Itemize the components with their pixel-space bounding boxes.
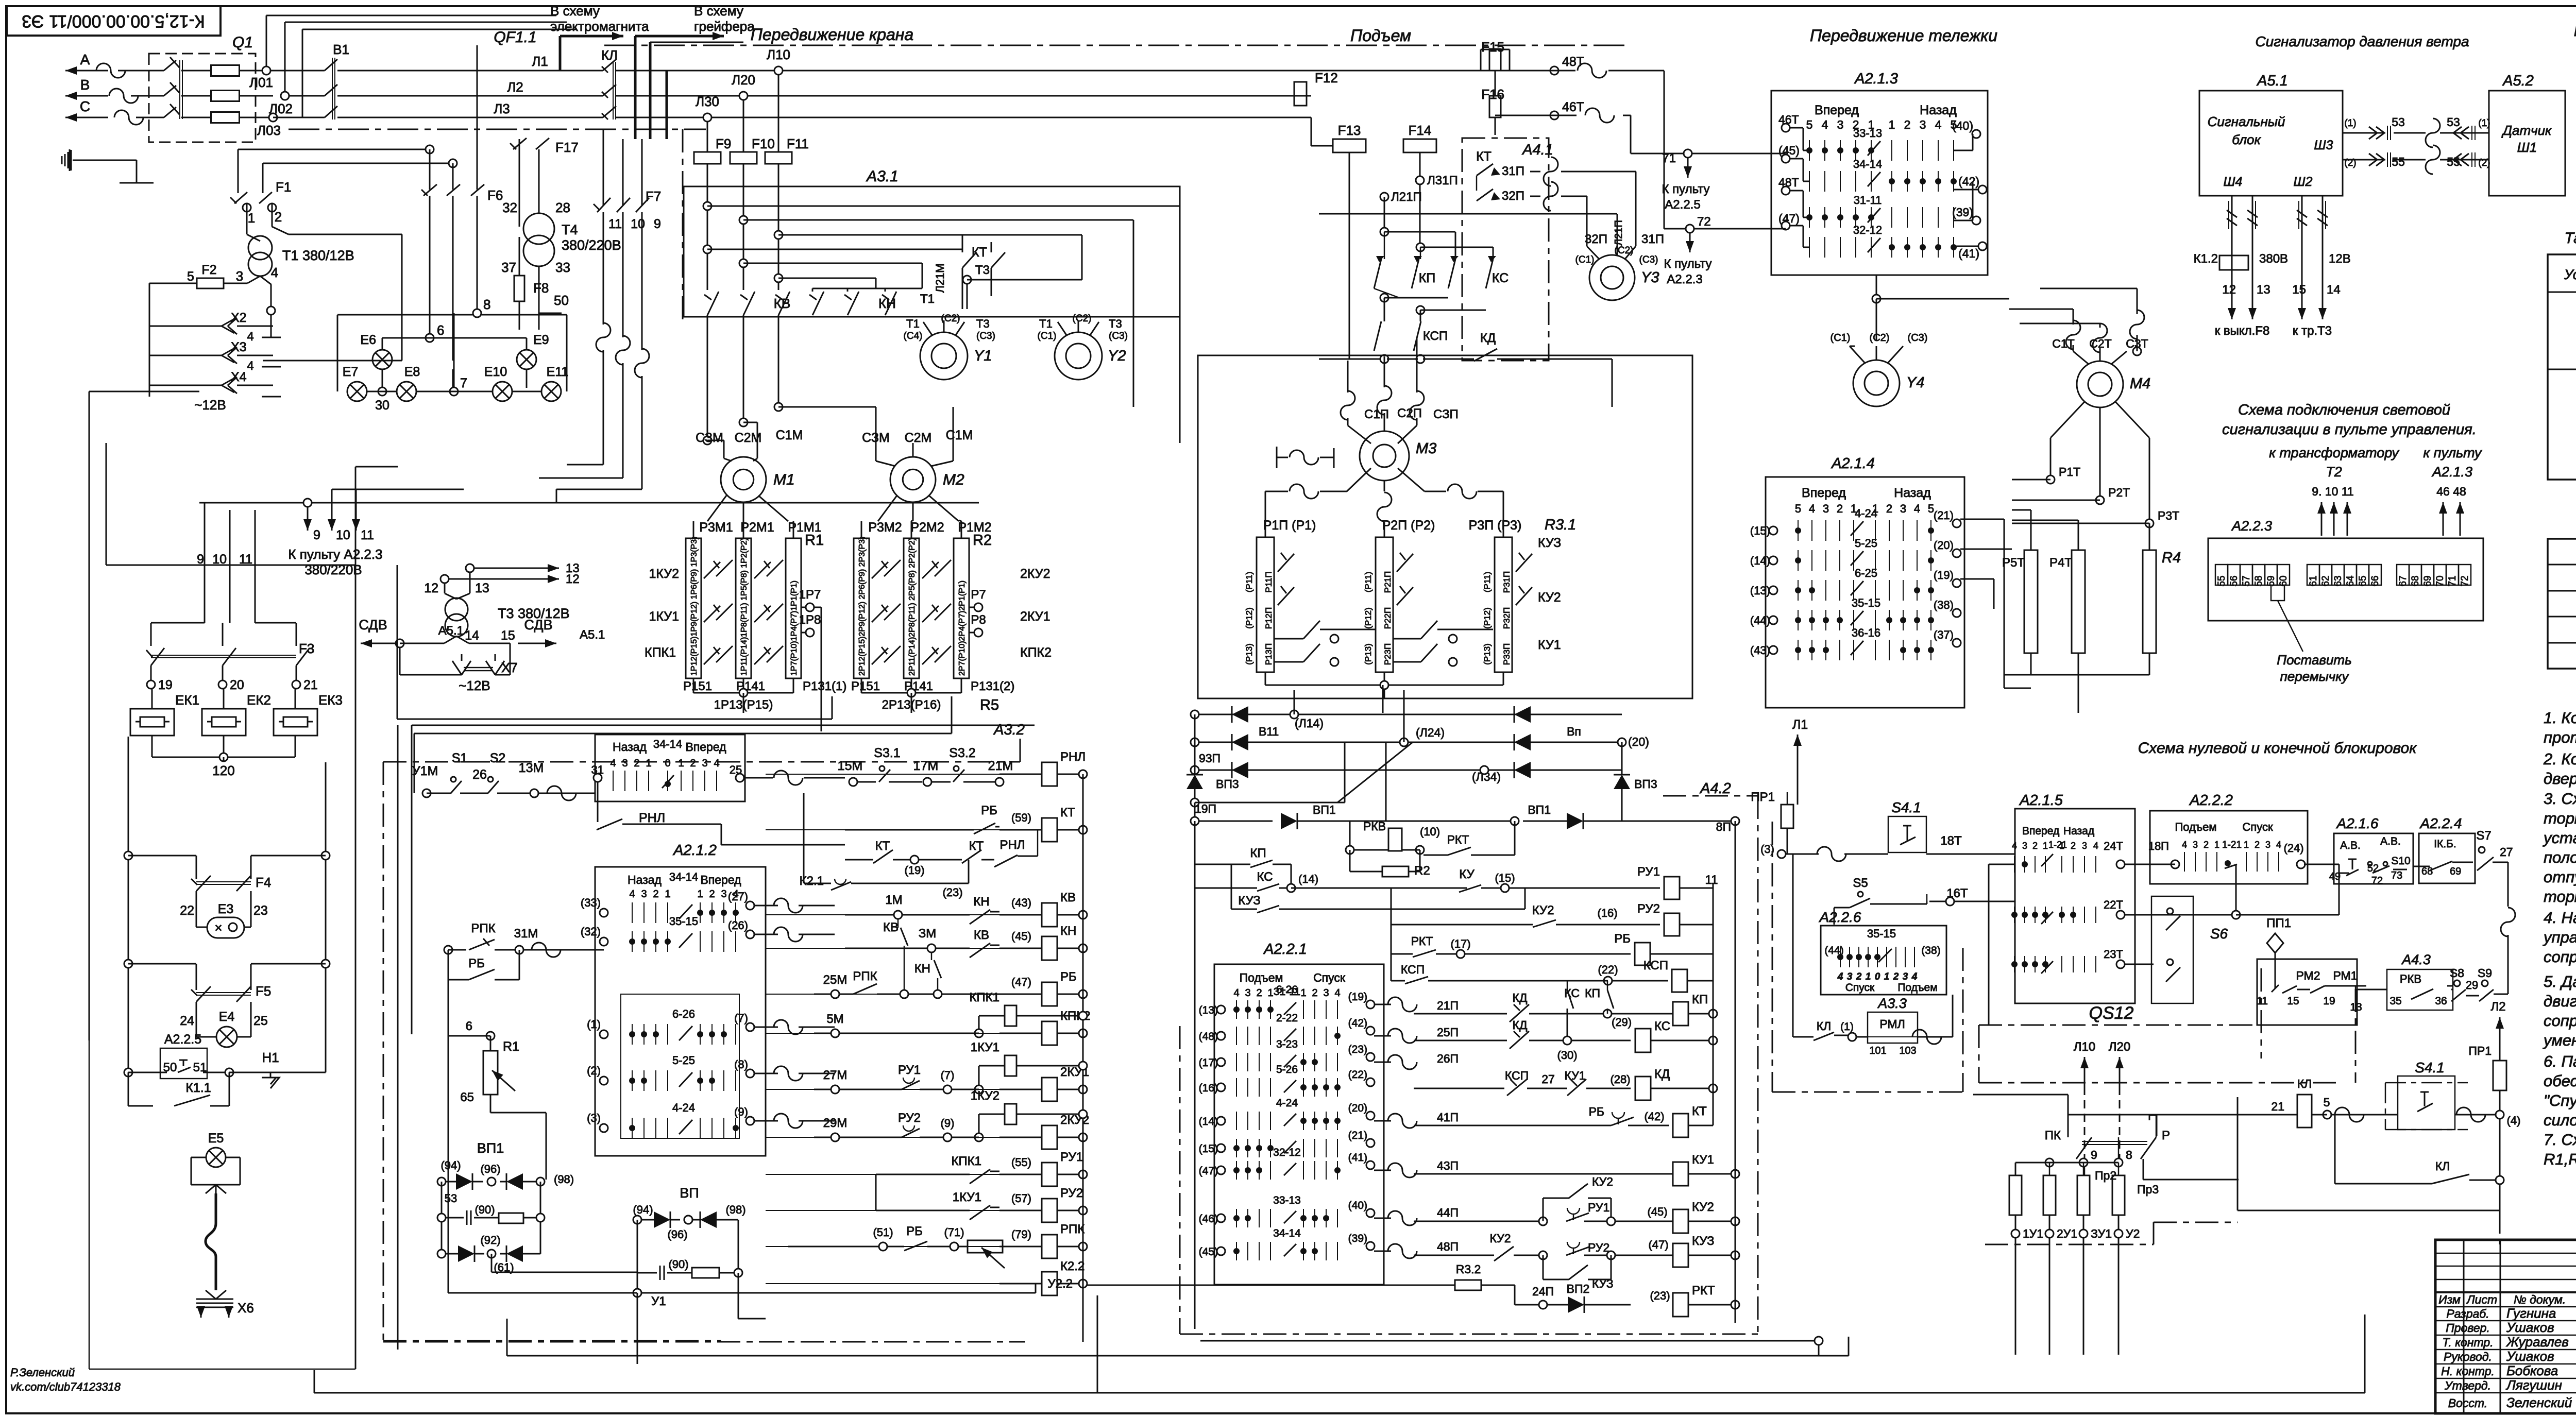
svg-text:КТ: КТ (875, 839, 890, 853)
svg-text:61: 61 (2308, 575, 2319, 586)
svg-text:1КУ1: 1КУ1 (953, 1190, 981, 1204)
svg-text:Y4: Y4 (1906, 374, 1924, 391)
svg-text:КПК1: КПК1 (951, 1154, 981, 1168)
svg-text:13: 13 (475, 581, 489, 595)
svg-text:4: 4 (1809, 502, 1815, 515)
svg-text:34-14: 34-14 (653, 738, 682, 750)
svg-text:F5: F5 (256, 983, 271, 999)
svg-text:(28): (28) (1610, 1073, 1630, 1086)
svg-text:46 48: 46 48 (2436, 485, 2466, 498)
svg-text:(45): (45) (1011, 930, 1031, 943)
svg-text:S2: S2 (490, 751, 506, 765)
svg-text:Назад: Назад (613, 740, 647, 754)
svg-text:ВП3: ВП3 (1634, 777, 1657, 791)
svg-text:КВ: КВ (883, 920, 899, 934)
svg-text:14: 14 (465, 628, 479, 643)
svg-text:R3.2: R3.2 (1456, 1262, 1481, 1276)
svg-text:сопротивлении R1 (ступень 63-6: сопротивлении R1 (ступень 63-65-0) произ… (2544, 1012, 2576, 1030)
svg-text:2: 2 (2071, 841, 2076, 851)
svg-text:(47): (47) (1199, 1165, 1218, 1177)
svg-text:Т1: Т1 (1039, 317, 1053, 330)
svg-text:КД: КД (1513, 1018, 1528, 1032)
svg-text:(30): (30) (1557, 1049, 1577, 1062)
svg-text:(92): (92) (480, 1234, 500, 1247)
svg-text:Ш4: Ш4 (2224, 175, 2243, 189)
svg-text:55: 55 (2392, 155, 2405, 168)
svg-text:34-14: 34-14 (1853, 158, 1882, 170)
svg-text:М3: М3 (1416, 440, 1436, 457)
svg-text:33: 33 (555, 260, 570, 275)
svg-text:8П: 8П (1716, 820, 1731, 833)
svg-text:Устройство: Устройство (2564, 267, 2576, 282)
svg-text:F14: F14 (1409, 123, 1432, 138)
svg-text:(40): (40) (1348, 1200, 1367, 1211)
svg-text:двери барьера.: двери барьера. (2544, 770, 2576, 788)
svg-text:71: 71 (1662, 151, 1676, 165)
svg-text:(С1): (С1) (1575, 254, 1595, 265)
svg-text:F9: F9 (716, 136, 731, 151)
svg-text:А5.1: А5.1 (438, 624, 464, 638)
svg-text:А2.1.3: А2.1.3 (1854, 71, 1898, 87)
svg-text:Провер.: Провер. (2446, 1321, 2490, 1335)
svg-text:25П: 25П (1437, 1026, 1459, 1039)
svg-text:А3.2: А3.2 (993, 722, 1025, 738)
svg-text:Р2М1: Р2М1 (740, 520, 774, 535)
svg-text:21П: 21П (1437, 999, 1459, 1012)
svg-text:(Р12): (Р12) (1482, 607, 1492, 629)
svg-text:vk.com/club74123318: vk.com/club74123318 (10, 1380, 121, 1393)
svg-text:F17: F17 (555, 140, 579, 155)
svg-text:68: 68 (2421, 866, 2433, 877)
svg-text:Р11П: Р11П (1264, 571, 1274, 592)
svg-text:S3.1: S3.1 (874, 746, 900, 760)
svg-text:(43): (43) (1011, 896, 1031, 909)
svg-text:А5.2: А5.2 (2502, 73, 2534, 89)
svg-text:1-21: 1-21 (2048, 840, 2067, 850)
svg-text:РКТ: РКТ (1411, 934, 1433, 948)
svg-text:F1: F1 (276, 179, 291, 195)
svg-text:11: 11 (2257, 995, 2268, 1007)
svg-text:к пульту: к пульту (2423, 445, 2482, 460)
svg-text:(39): (39) (1348, 1233, 1367, 1244)
svg-text:3: 3 (1245, 987, 1250, 999)
svg-text:69: 69 (2422, 575, 2433, 586)
svg-text:Р2М2: Р2М2 (910, 520, 944, 535)
svg-text:Е9: Е9 (533, 333, 549, 347)
svg-text:(27): (27) (728, 890, 748, 903)
svg-text:6. Панель управления механизма: 6. Панель управления механизма подъема Т… (2544, 1052, 2576, 1070)
svg-text:1КУ1: 1КУ1 (649, 609, 679, 624)
svg-text:46Т: 46Т (1562, 100, 1584, 114)
svg-text:Н. контр.: Н. контр. (2441, 1364, 2495, 1378)
svg-text:(13): (13) (1199, 1004, 1218, 1016)
svg-text:торможение противовключением и: торможение противовключением и свободный… (2544, 809, 2576, 827)
svg-text:"Спуск", режим динамического т: "Спуск", режим динамического торможения,… (2544, 1091, 2576, 1109)
svg-text:Р8: Р8 (971, 613, 986, 627)
svg-text:S5: S5 (1853, 876, 1868, 890)
svg-text:4: 4 (1837, 971, 1843, 982)
svg-text:(14): (14) (1199, 1116, 1218, 1128)
svg-text:19: 19 (2323, 995, 2335, 1007)
svg-text:(13): (13) (1750, 584, 1770, 597)
svg-text:8: 8 (483, 297, 490, 312)
svg-text:31П: 31П (1502, 164, 1524, 178)
svg-text:5: 5 (1806, 118, 1813, 131)
svg-text:А2.2.2: А2.2.2 (2189, 792, 2233, 809)
svg-text:19: 19 (158, 678, 173, 692)
svg-text:1Р11(Р14)1Р8(Р11) 1Р5(Р8) 1Р2(: 1Р11(Р14)1Р8(Р11) 1Р5(Р8) 1Р2(Р2) (740, 538, 749, 676)
svg-text:электромагнита: электромагнита (550, 19, 649, 34)
svg-text:КВ: КВ (974, 928, 989, 942)
svg-text:Изм: Изм (2438, 1293, 2461, 1306)
svg-text:3: 3 (1837, 118, 1844, 131)
svg-text:1У1: 1У1 (2023, 1227, 2043, 1240)
svg-text:24: 24 (180, 1014, 194, 1028)
svg-text:(98): (98) (554, 1173, 574, 1186)
svg-text:27: 27 (2500, 845, 2513, 859)
svg-text:2У1: 2У1 (2057, 1227, 2077, 1240)
svg-text:к выкл.F8: к выкл.F8 (2215, 324, 2270, 338)
svg-text:Схема подключения световой: Схема подключения световой (2238, 402, 2450, 418)
svg-text:15: 15 (2292, 283, 2306, 297)
svg-text:36-16: 36-16 (1852, 626, 1880, 639)
svg-text:29: 29 (2466, 979, 2478, 992)
svg-text:Л21П: Л21П (1391, 190, 1422, 204)
svg-text:(96): (96) (667, 1228, 687, 1241)
svg-text:Т3: Т3 (975, 263, 990, 277)
svg-text:31П: 31П (1641, 232, 1664, 246)
svg-text:А2.1.5: А2.1.5 (2019, 792, 2063, 809)
svg-text:А3.3: А3.3 (1877, 996, 1907, 1011)
svg-text:Х7: Х7 (501, 660, 518, 675)
svg-text:КУ: КУ (1459, 867, 1475, 881)
svg-text:Р22П: Р22П (1383, 607, 1393, 629)
svg-text:103: 103 (1899, 1045, 1916, 1056)
svg-text:К пульту А2.2.3: К пульту А2.2.3 (288, 547, 382, 562)
svg-text:(23): (23) (942, 886, 962, 899)
svg-text:20: 20 (230, 678, 244, 692)
svg-text:69: 69 (2450, 866, 2461, 877)
svg-text:Восст.: Восст. (2448, 1396, 2487, 1410)
svg-text:(20): (20) (1934, 539, 1954, 552)
svg-text:3: 3 (2082, 841, 2087, 851)
svg-text:Подъем: Подъем (1350, 26, 1411, 45)
svg-text:Р151: Р151 (683, 679, 712, 693)
svg-text:(14): (14) (1750, 554, 1770, 567)
svg-text:(14): (14) (1298, 873, 1318, 885)
svg-text:блок: блок (2232, 132, 2261, 147)
svg-text:КП: КП (1585, 986, 1600, 1000)
svg-text:Р1Т: Р1Т (2059, 465, 2080, 479)
svg-text:(15): (15) (1750, 524, 1770, 537)
svg-text:3: 3 (1920, 118, 1926, 131)
svg-text:КТ: КТ (1476, 149, 1492, 164)
svg-text:34-14: 34-14 (1273, 1227, 1301, 1239)
svg-text:(С2): (С2) (1870, 332, 1890, 344)
svg-text:S1: S1 (452, 751, 468, 765)
svg-text:В11: В11 (1259, 725, 1279, 738)
svg-text:ПП1: ПП1 (2266, 916, 2291, 930)
svg-text:Вперед: Вперед (700, 873, 741, 886)
svg-text:противоугонных захватах.: противоугонных захватах. (2544, 728, 2576, 746)
svg-text:В: В (80, 77, 90, 93)
svg-text:КТ: КТ (972, 245, 987, 260)
svg-text:25: 25 (253, 1014, 268, 1028)
svg-text:КУ2: КУ2 (1692, 1200, 1714, 1214)
svg-text:РНЛ: РНЛ (1060, 750, 1086, 764)
svg-text:(17): (17) (1450, 937, 1470, 950)
svg-text:(48): (48) (1199, 1031, 1218, 1043)
svg-text:53: 53 (2447, 115, 2460, 129)
svg-text:Р31П: Р31П (1502, 571, 1512, 593)
svg-text:Т3: Т3 (976, 317, 990, 330)
svg-text:ЕК3: ЕК3 (318, 692, 343, 708)
svg-text:ВП1: ВП1 (477, 1140, 504, 1156)
svg-text:101: 101 (1869, 1045, 1886, 1056)
svg-text:41П: 41П (1437, 1111, 1459, 1124)
svg-text:15: 15 (501, 628, 515, 643)
svg-text:А2.1.4: А2.1.4 (1831, 455, 1875, 472)
svg-text:1: 1 (248, 210, 255, 226)
svg-text:Назад: Назад (628, 873, 662, 886)
svg-text:4: 4 (271, 265, 278, 280)
svg-text:А: А (80, 52, 90, 67)
svg-text:Л3: Л3 (494, 101, 510, 116)
svg-text:Назад: Назад (1894, 486, 1931, 500)
svg-text:21: 21 (2271, 1100, 2284, 1113)
svg-text:(98): (98) (725, 1203, 745, 1216)
svg-text:(21): (21) (1348, 1130, 1367, 1141)
svg-text:3: 3 (2022, 841, 2027, 851)
svg-text:15: 15 (2287, 995, 2299, 1007)
svg-text:С1П: С1П (1364, 407, 1389, 421)
svg-text:КС: КС (1257, 870, 1273, 884)
svg-text:36: 36 (2435, 995, 2447, 1007)
svg-text:12В: 12В (2329, 252, 2351, 266)
svg-text:4: 4 (2276, 840, 2281, 850)
svg-text:(38): (38) (1921, 945, 1940, 957)
svg-text:РБ: РБ (1589, 1105, 1604, 1118)
svg-text:А2.2.5: А2.2.5 (164, 1032, 201, 1047)
svg-text:6: 6 (437, 322, 444, 338)
svg-text:К2.2: К2.2 (1060, 1259, 1084, 1273)
svg-text:1: 1 (1889, 118, 1895, 131)
svg-text:КЛ: КЛ (2435, 1159, 2450, 1173)
svg-text:18П: 18П (2148, 840, 2169, 852)
svg-text:4: 4 (2182, 840, 2187, 850)
svg-text:27М: 27М (823, 1068, 848, 1082)
svg-text:Т1: Т1 (920, 292, 935, 306)
svg-text:67: 67 (2398, 575, 2409, 586)
svg-text:К пульту: К пульту (1662, 182, 1709, 196)
svg-text:19П: 19П (1195, 802, 1216, 815)
svg-text:РПК: РПК (471, 921, 495, 935)
svg-text:(45): (45) (1199, 1246, 1218, 1258)
svg-text:У1: У1 (651, 1294, 666, 1308)
svg-text:S3.2: S3.2 (949, 746, 975, 760)
svg-text:А5.1: А5.1 (580, 628, 605, 642)
svg-text:Р: Р (2162, 1129, 2170, 1142)
svg-text:Т3: Т3 (1109, 317, 1122, 330)
svg-text:72: 72 (2460, 575, 2470, 586)
svg-text:(Р12): (Р12) (1244, 607, 1254, 629)
svg-text:Спуск: Спуск (1313, 971, 1346, 984)
svg-text:5М: 5М (826, 1012, 843, 1026)
svg-text:(21): (21) (1934, 509, 1954, 522)
svg-text:Гугнина: Гугнина (2506, 1306, 2556, 1321)
svg-text:380В: 380В (2259, 252, 2288, 266)
svg-text:А3.1: А3.1 (866, 168, 899, 185)
svg-text:Р2П (Р2): Р2П (Р2) (1382, 518, 1435, 533)
svg-text:Р23П: Р23П (1383, 643, 1393, 665)
svg-text:Л30: Л30 (696, 94, 719, 109)
svg-text:КУ2: КУ2 (1592, 1175, 1613, 1188)
svg-text:ПР1: ПР1 (2468, 1044, 2492, 1057)
svg-text:3: 3 (1847, 971, 1853, 982)
svg-text:2: 2 (1312, 987, 1317, 999)
svg-text:6: 6 (466, 1019, 472, 1033)
svg-text:(Л24): (Л24) (1416, 726, 1445, 739)
svg-text:(С2): (С2) (1073, 313, 1092, 324)
svg-text:26П: 26П (1437, 1052, 1459, 1065)
svg-text:14: 14 (2327, 283, 2341, 297)
svg-text:Подъем: Подъем (1897, 982, 1937, 994)
svg-text:(8): (8) (734, 1058, 748, 1071)
svg-text:(16): (16) (1597, 907, 1617, 919)
svg-text:F3: F3 (299, 641, 314, 656)
svg-text:4: 4 (1822, 118, 1828, 131)
svg-text:1Р7(Р10)1Р4(Р7)1Р1(Р1): 1Р7(Р10)1Р4(Р7)1Р1(Р1) (790, 581, 799, 676)
svg-text:РМ2: РМ2 (2296, 969, 2320, 982)
svg-text:(С3): (С3) (1109, 331, 1128, 342)
svg-text:(7): (7) (734, 1012, 748, 1025)
svg-text:Л21П: Л21П (1613, 220, 1624, 246)
svg-text:(23): (23) (1348, 1044, 1367, 1055)
svg-text:Р5Т: Р5Т (2002, 556, 2025, 570)
svg-text:S4.1: S4.1 (2415, 1060, 2445, 1075)
svg-text:СДВ: СДВ (524, 617, 552, 633)
svg-text:1: 1 (2043, 841, 2048, 851)
svg-text:11: 11 (608, 217, 622, 231)
svg-text:1. Конечные выключатели S1, S2: 1. Конечные выключатели S1, S2 изображен… (2544, 709, 2576, 727)
svg-text:4: 4 (1334, 987, 1340, 999)
svg-text:(Р13): (Р13) (1482, 643, 1492, 665)
svg-text:70: 70 (2435, 575, 2446, 586)
svg-text:уменьшением сопротивления R2 (: уменьшением сопротивления R2 (ступень 71… (2543, 1031, 2576, 1049)
svg-text:4-24: 4-24 (1855, 507, 1877, 520)
svg-text:1Р7: 1Р7 (799, 588, 821, 602)
svg-text:ВП2: ВП2 (1567, 1282, 1590, 1295)
svg-text:F7: F7 (646, 189, 661, 204)
svg-text:S9: S9 (2478, 966, 2492, 980)
svg-text:5. Дальнейшая регулировка вклю: 5. Дальнейшая регулировка включения реле… (2544, 972, 2576, 991)
svg-text:18Т: 18Т (1940, 834, 1962, 848)
svg-text:А.В.: А.В. (2340, 840, 2361, 851)
svg-text:(С1): (С1) (1038, 331, 1057, 342)
svg-text:(С4): (С4) (904, 331, 923, 342)
svg-text:РКТ: РКТ (1692, 1284, 1715, 1298)
svg-text:F12: F12 (1315, 70, 1338, 86)
svg-text:Пр3: Пр3 (2137, 1183, 2159, 1196)
svg-text:№ докум.: № докум. (2514, 1293, 2566, 1306)
svg-text:F15: F15 (1481, 39, 1504, 55)
svg-text:КП: КП (1692, 993, 1708, 1006)
svg-text:35: 35 (2389, 995, 2401, 1007)
svg-text:11: 11 (1705, 873, 1718, 887)
svg-text:120: 120 (212, 763, 234, 778)
svg-text:А2.2.3: А2.2.3 (2231, 518, 2272, 534)
svg-text:10: 10 (631, 217, 645, 231)
svg-text:ЕК2: ЕК2 (247, 692, 271, 708)
svg-text:×: × (214, 920, 222, 935)
svg-text:1М: 1М (885, 893, 902, 907)
svg-text:РНЛ: РНЛ (999, 838, 1025, 852)
svg-text:1: 1 (2214, 840, 2219, 850)
svg-text:4: 4 (1911, 971, 1918, 982)
svg-text:73: 73 (2391, 870, 2402, 881)
svg-text:0: 0 (1875, 971, 1880, 982)
svg-text:КПК2: КПК2 (1020, 645, 1052, 660)
svg-text:32: 32 (502, 200, 517, 215)
svg-text:Вперед: Вперед (685, 740, 726, 754)
svg-text:(41): (41) (1348, 1152, 1367, 1164)
svg-text:КС: КС (1492, 271, 1509, 285)
svg-text:РУ2: РУ2 (1588, 1241, 1609, 1254)
svg-text:9: 9 (654, 217, 661, 231)
svg-text:5: 5 (1795, 502, 1801, 515)
svg-text:(С1): (С1) (1831, 332, 1851, 344)
svg-text:27: 27 (1541, 1072, 1555, 1086)
svg-text:обеспечивает, в первых трех по: обеспечивает, в первых трех положениях н… (2544, 1072, 2576, 1090)
svg-text:Схема нулевой и конечной блоки: Схема нулевой и конечной блокировок (2138, 740, 2418, 757)
svg-text:(29): (29) (1612, 1016, 1632, 1029)
svg-text:Х4: Х4 (231, 370, 247, 384)
svg-text:Вперед: Вперед (1815, 103, 1859, 117)
svg-text:КН: КН (973, 895, 989, 909)
svg-text:РБ: РБ (1060, 970, 1077, 984)
svg-text:2-22: 2-22 (1276, 1012, 1298, 1024)
svg-text:R3.1: R3.1 (1545, 517, 1576, 533)
svg-text:43П: 43П (1437, 1159, 1459, 1172)
svg-text:Журавлев: Журавлев (2505, 1334, 2569, 1350)
svg-text:R4: R4 (2162, 550, 2181, 566)
svg-text:Р4Т: Р4Т (2049, 556, 2072, 570)
svg-text:А2.2.3: А2.2.3 (1667, 272, 1702, 286)
svg-text:4-24: 4-24 (672, 1101, 695, 1114)
svg-text:5: 5 (187, 269, 194, 284)
svg-text:Утверд.: Утверд. (2444, 1379, 2491, 1392)
svg-text:56: 56 (2229, 575, 2240, 586)
svg-text:КН: КН (914, 962, 930, 976)
svg-text:Л31П: Л31П (1427, 174, 1458, 187)
svg-text:(45): (45) (1647, 1205, 1667, 1218)
svg-text:(Р13): (Р13) (1244, 643, 1254, 665)
svg-text:64: 64 (2345, 575, 2356, 587)
svg-text:Y3: Y3 (1641, 269, 1659, 286)
svg-text:Л2: Л2 (507, 79, 523, 95)
svg-text:2: 2 (1837, 502, 1843, 515)
svg-text:КТ: КТ (1060, 806, 1075, 820)
svg-text:S4.1: S4.1 (1891, 799, 1921, 815)
svg-text:Е10: Е10 (484, 365, 507, 379)
svg-text:к трансформатору: к трансформатору (2269, 445, 2399, 460)
svg-text:Р7: Р7 (971, 588, 986, 602)
svg-text:F2: F2 (201, 263, 216, 277)
svg-text:4: 4 (714, 758, 719, 769)
svg-text:С2М: С2М (905, 431, 932, 445)
svg-text:(96): (96) (480, 1163, 500, 1175)
svg-text:F4: F4 (256, 875, 271, 890)
